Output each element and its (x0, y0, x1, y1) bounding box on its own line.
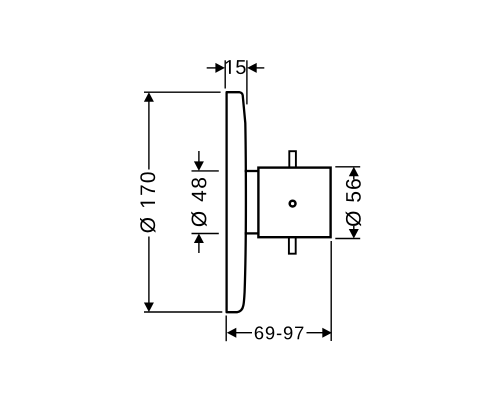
dim Ø48 bottom extension line (192, 233, 219, 235)
dim Ø56 bottom extension line (335, 238, 360, 240)
top mounting tab (289, 151, 296, 168)
dim Ø56 top extension line (335, 166, 360, 168)
dim Ø170 dimension line lower segment (148, 237, 150, 304)
dim Ø56 upper arrowhead (349, 167, 359, 177)
center screw hole (290, 201, 296, 207)
dim 15 left arrowhead (215, 63, 225, 73)
sleeve bottom line (Ø48 collar) (245, 232, 259, 234)
bottom mounting tab (289, 237, 296, 254)
valve body (Ø56) (258, 168, 330, 238)
dim 69-97 right arrowhead (322, 328, 332, 338)
dim Ø170 bottom extension line (144, 311, 222, 313)
dim 69-97 label (255, 326, 304, 339)
dim Ø56 upper arrow tail (353, 176, 355, 180)
dim Ø48 lower arrow tail (198, 242, 200, 253)
dim Ø56 lower arrowhead (349, 229, 359, 239)
dim 69-97 dimension line left segment (236, 332, 252, 334)
escutcheon plate (side profile) (227, 92, 246, 312)
dim 15 right arrow tail (256, 67, 264, 69)
dim Ø48 label (191, 178, 207, 226)
dim 69-97 left arrowhead (227, 328, 237, 338)
dim Ø56 label (346, 179, 362, 226)
dim Ø170 top arrowhead (144, 92, 154, 102)
dim 15 left extension line (224, 60, 226, 88)
dim 15 right arrowhead (247, 63, 257, 73)
dim 69-97 right extension line (330, 241, 332, 341)
dim 15 left arrow tail (207, 67, 216, 69)
dim 15 label (226, 60, 246, 74)
dim Ø170 label (140, 172, 156, 232)
dim 69-97 left extension line (225, 316, 227, 342)
dim Ø48 lower arrowhead (194, 234, 204, 244)
dim 15 right extension line (246, 60, 248, 104)
dim Ø170 top extension line (144, 91, 221, 93)
dim 69-97 dimension line right segment (307, 332, 323, 334)
dim Ø48 upper arrow tail (198, 151, 200, 163)
dim Ø170 bottom arrowhead (144, 303, 154, 313)
dim Ø56 lower arrow tail (353, 226, 355, 230)
dim Ø48 top extension line (192, 170, 219, 172)
sleeve top line (Ø48 collar) (245, 170, 259, 172)
dim Ø170 dimension line upper segment (148, 101, 150, 170)
dim Ø48 upper arrowhead (194, 161, 204, 171)
